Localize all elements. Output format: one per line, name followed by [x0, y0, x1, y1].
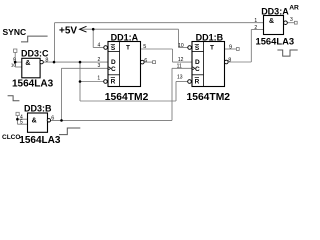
svg-text:1564LA3: 1564LA3: [256, 35, 295, 46]
svg-text:T: T: [126, 45, 130, 52]
svg-text:4: 4: [98, 42, 101, 48]
svg-text:10: 10: [178, 43, 184, 49]
svg-text:S: S: [195, 45, 200, 52]
svg-text:1564TM2: 1564TM2: [187, 92, 231, 103]
svg-text:1: 1: [97, 75, 100, 81]
svg-text:DD1:B: DD1:B: [196, 33, 224, 43]
svg-text:1: 1: [254, 18, 257, 24]
svg-text:D: D: [195, 59, 200, 66]
svg-text:11: 11: [177, 63, 182, 69]
svg-text:&: &: [32, 118, 37, 125]
svg-text:S: S: [111, 45, 116, 52]
svg-text:C: C: [111, 66, 116, 73]
svg-text:DD3:B: DD3:B: [24, 103, 52, 113]
svg-text:DD1:A: DD1:A: [111, 33, 139, 43]
svg-text:1564LA3: 1564LA3: [12, 78, 54, 89]
svg-text:&: &: [25, 60, 30, 67]
svg-text:R: R: [111, 78, 116, 85]
svg-text:1564TM2: 1564TM2: [105, 92, 149, 103]
svg-text:1564LA3: 1564LA3: [19, 135, 61, 145]
svg-text:2: 2: [254, 25, 257, 31]
svg-text:AR: AR: [289, 4, 299, 11]
svg-text:6: 6: [51, 116, 54, 122]
svg-text:5: 5: [20, 119, 23, 125]
svg-text:&: &: [269, 18, 274, 25]
svg-text:CLCO: CLCO: [2, 134, 20, 141]
svg-text:3: 3: [290, 17, 293, 23]
svg-text:13: 13: [177, 75, 183, 81]
svg-text:D: D: [111, 59, 116, 66]
svg-text:DD3:A: DD3:A: [261, 7, 289, 17]
svg-text:SYNC: SYNC: [3, 27, 27, 37]
svg-text:DD3:C: DD3:C: [21, 49, 49, 59]
svg-text:12: 12: [178, 57, 184, 63]
svg-text:8: 8: [228, 58, 231, 64]
svg-text:R: R: [195, 78, 200, 85]
svg-text:9: 9: [229, 44, 232, 50]
svg-text:T: T: [210, 45, 214, 52]
svg-text:C: C: [195, 66, 200, 73]
svg-text:5: 5: [143, 44, 146, 50]
svg-text:6: 6: [144, 58, 147, 64]
svg-text:3: 3: [98, 63, 101, 69]
svg-text:10: 10: [11, 63, 17, 68]
svg-text:+5V: +5V: [59, 25, 77, 36]
